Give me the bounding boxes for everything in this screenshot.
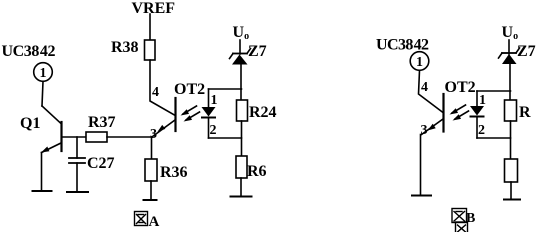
ground (Q1 emitter) [33,190,52,192]
caption 图A [135,212,160,231]
svg-text:3: 3 [421,123,428,138]
svg-text:Z7: Z7 [517,43,536,60]
wire emitter to ground (B) [420,135,422,196]
wire R to lower resistor (B) [510,121,512,159]
light arrows (A) [181,106,200,122]
zener Z7 (B) [499,48,520,64]
svg-text:R24: R24 [249,104,277,121]
resistor lower (B) [505,159,518,182]
svg-text:R37: R37 [88,114,116,131]
opto transistor OT2 (A) [153,98,176,137]
wire C27 to ground [76,163,78,192]
caption 图B [452,209,475,236]
wire R38 to pin 4 [150,60,175,115]
wire Q1 base [63,136,87,138]
wire R37 to node 3 [107,136,152,138]
svg-text:1: 1 [416,55,423,70]
svg-text:UC38 42: UC38 42 [376,37,429,54]
resistor R24 [237,100,248,121]
svg-text:C27: C27 [87,155,115,172]
wire R24 to R6 [241,121,243,156]
svg-text:R36: R36 [160,164,188,181]
svg-text:B: B [466,211,475,226]
svg-text:Q1: Q1 [20,115,40,132]
wire lower resistor to ground (B) [510,182,512,200]
optocoupler LED box (B) [477,90,511,92]
ground (R36) [144,199,157,201]
svg-text:2: 2 [478,123,485,138]
svg-text:OT2: OT2 [445,79,476,96]
svg-text:4: 4 [421,80,428,95]
svg-text:R38: R38 [111,39,139,56]
opto transistor OT2 (B) [422,94,444,135]
svg-text:4: 4 [152,85,159,100]
ground (rail B) [504,199,520,201]
wire R6 to ground [240,178,242,197]
pin 1 circle U1A [34,63,53,82]
transistor Q1 [41,106,62,153]
wire VREF to R38 [149,14,151,40]
svg-text:R6: R6 [247,163,267,180]
svg-text:1: 1 [479,93,486,108]
svg-text:1: 1 [40,66,47,81]
ground (R6) [231,196,252,198]
svg-text:R: R [519,104,531,121]
wire Q1 emitter to ground [41,153,43,192]
LED diode (B) [470,91,484,138]
ground (OT2 emitter B) [412,195,431,197]
svg-text:1: 1 [211,93,218,108]
resistor R6 [236,156,247,178]
light arrows (B) [450,105,469,121]
wire R36 to ground [150,181,152,200]
ground (C27) [67,191,88,193]
resistor R37 [86,132,107,142]
wire Z7 to R (B) [509,64,511,100]
LED diode (A) [202,89,216,138]
wire pin1 to OT2 collector (B) [419,71,444,113]
svg-text:2: 2 [210,123,217,138]
resistor R (B) [505,100,517,121]
wire C27 top [76,137,78,158]
svg-text:OT2: OT2 [174,81,205,98]
optocoupler LED box (A) [209,88,242,90]
svg-text:UC38 42: UC38 42 [2,43,56,60]
capacitor C27 [69,158,85,163]
svg-text:Z7: Z7 [248,43,267,60]
wire Uo to Z7 [239,40,241,54]
wire node3 to R36 [151,137,153,159]
wire Uo to Z7 (B) [508,40,510,54]
pin 1 circle U1B [410,52,429,71]
resistor R36 [145,159,157,181]
zener Z7 (A) [230,49,251,65]
wire pin1 to Q1 collector [42,82,43,107]
wire Z7 to R24 [240,65,242,101]
svg-text:VREF: VREF [132,0,176,17]
svg-text:A: A [149,214,160,230]
resistor R38 [145,40,156,60]
